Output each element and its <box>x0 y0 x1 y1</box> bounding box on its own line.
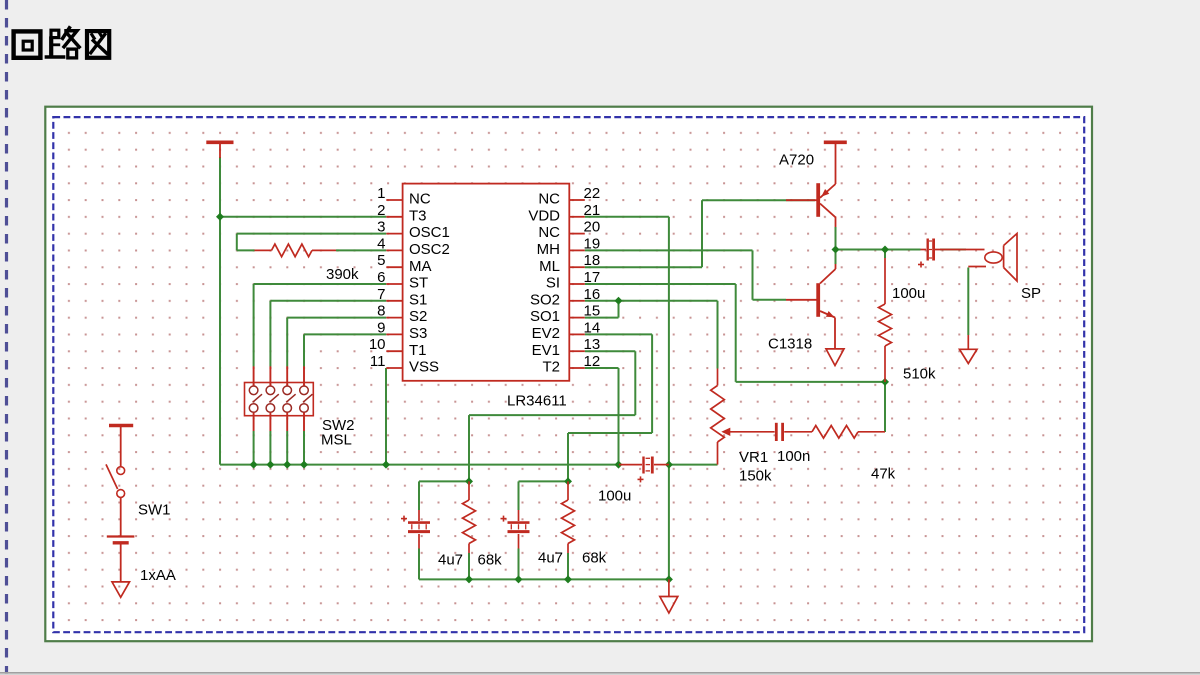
svg-text:20: 20 <box>584 219 601 236</box>
svg-text:8: 8 <box>377 303 385 320</box>
svg-text:21: 21 <box>584 202 601 219</box>
svg-text:NC: NC <box>538 224 560 241</box>
svg-text:12: 12 <box>584 353 601 370</box>
svg-text:14: 14 <box>584 319 601 336</box>
svg-text:9: 9 <box>377 319 385 336</box>
svg-text:68k: 68k <box>478 552 503 569</box>
svg-text:6: 6 <box>377 269 385 286</box>
svg-text:15: 15 <box>584 303 601 320</box>
svg-text:T3: T3 <box>409 207 427 224</box>
svg-text:2: 2 <box>377 202 385 219</box>
svg-text:MSL: MSL <box>321 432 352 449</box>
svg-text:150k: 150k <box>739 468 772 485</box>
svg-text:13: 13 <box>584 336 601 353</box>
svg-text:T2: T2 <box>542 359 560 376</box>
svg-text:SO2: SO2 <box>530 291 560 308</box>
svg-text:EV2: EV2 <box>532 325 560 342</box>
svg-text:4u7: 4u7 <box>438 552 463 569</box>
svg-text:NC: NC <box>538 191 560 208</box>
svg-text:OSC2: OSC2 <box>409 241 450 258</box>
svg-text:ST: ST <box>409 275 428 292</box>
svg-text:4: 4 <box>377 235 385 252</box>
svg-text:EV1: EV1 <box>532 342 560 359</box>
svg-text:S3: S3 <box>409 325 427 342</box>
svg-text:18: 18 <box>584 252 601 269</box>
svg-text:5: 5 <box>377 252 385 269</box>
svg-text:390k: 390k <box>326 266 359 283</box>
svg-text:MA: MA <box>409 258 432 275</box>
svg-text:NC: NC <box>409 191 431 208</box>
svg-text:22: 22 <box>584 185 601 202</box>
svg-text:4u7: 4u7 <box>538 550 563 567</box>
svg-text:100u: 100u <box>892 285 925 302</box>
svg-text:SO1: SO1 <box>530 308 560 325</box>
svg-text:47k: 47k <box>871 466 896 483</box>
svg-text:VSS: VSS <box>409 359 439 376</box>
svg-text:S1: S1 <box>409 291 427 308</box>
svg-text:100n: 100n <box>777 448 810 465</box>
svg-text:100u: 100u <box>598 488 631 505</box>
svg-text:1xAA: 1xAA <box>140 567 176 584</box>
svg-text:68k: 68k <box>582 550 607 567</box>
svg-text:VR1: VR1 <box>739 449 768 466</box>
svg-text:16: 16 <box>584 286 601 303</box>
svg-text:OSC1: OSC1 <box>409 224 450 241</box>
svg-text:ML: ML <box>539 258 560 275</box>
svg-text:10: 10 <box>369 336 386 353</box>
svg-text:SI: SI <box>546 275 560 292</box>
svg-text:1: 1 <box>377 185 385 202</box>
svg-text:T1: T1 <box>409 342 427 359</box>
svg-text:MH: MH <box>537 241 560 258</box>
svg-text:SP: SP <box>1021 285 1041 302</box>
svg-text:A720: A720 <box>779 152 814 169</box>
svg-text:VDD: VDD <box>528 207 560 224</box>
svg-text:7: 7 <box>377 286 385 303</box>
svg-text:C1318: C1318 <box>768 336 812 353</box>
svg-text:3: 3 <box>377 219 385 236</box>
svg-text:11: 11 <box>370 353 386 370</box>
svg-text:17: 17 <box>584 269 601 286</box>
svg-text:LR34611: LR34611 <box>507 393 567 410</box>
svg-text:S2: S2 <box>409 308 427 325</box>
svg-text:19: 19 <box>584 235 601 252</box>
svg-text:510k: 510k <box>903 366 936 383</box>
svg-text:SW1: SW1 <box>138 502 171 519</box>
